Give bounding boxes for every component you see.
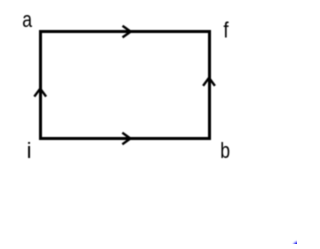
svg-text:f: f	[223, 19, 228, 43]
arrow top edge (right)	[123, 26, 131, 38]
arrow right edge (up)	[203, 78, 215, 86]
blue corner blob	[293, 242, 303, 249]
svg-text:b: b	[220, 139, 230, 163]
svg-text:i: i	[27, 138, 32, 163]
wire rectangle loop a-f-b-i	[41, 32, 210, 139]
arrow bottom edge (right)	[122, 133, 130, 145]
arrow left edge (up)	[34, 89, 46, 97]
svg-text:a: a	[22, 8, 33, 32]
